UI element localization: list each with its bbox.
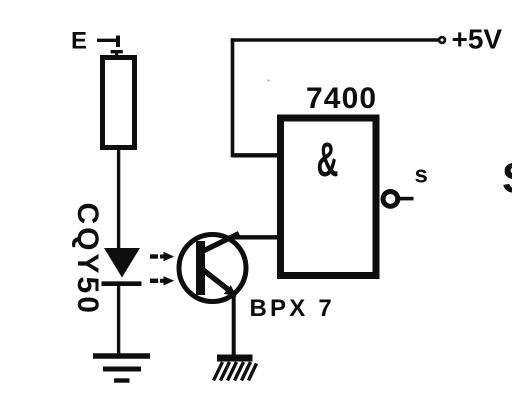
svg-text:7400: 7400 [306, 82, 377, 115]
light arrow upper head [160, 252, 174, 261]
wire resistor to LED [117, 150, 120, 250]
wire emitter to chassis ground [232, 295, 236, 358]
terminal +5V open circle [439, 37, 445, 43]
resistor R1 top terminal T-bar [111, 50, 123, 53]
stray speck [268, 80, 270, 82]
output inversion bubble [383, 192, 398, 207]
transistor Q1 collector stroke [202, 234, 239, 252]
wire E lead [97, 39, 118, 42]
transistor Q1 base bar [196, 241, 205, 295]
svg-text:E: E [71, 28, 87, 55]
transistor Q1 emitter arrowhead [224, 285, 237, 296]
resistor R1 [103, 58, 135, 148]
wire output s [399, 197, 414, 201]
light arrow lower head [160, 276, 174, 285]
wire +5V vertical drop [231, 38, 235, 157]
ground (earth) bar 2 [103, 367, 141, 372]
ground (earth) bar 1 [93, 353, 150, 359]
NAND gate U1 body [281, 118, 377, 276]
LED D1 cathode bar [102, 281, 142, 286]
wire into gate input A [233, 153, 281, 157]
chassis ground bar [217, 355, 253, 362]
wire +5V top rail [231, 38, 440, 41]
chassis ground hatch [214, 362, 257, 381]
light arrow lower dash [150, 279, 158, 283]
wire LED to ground [117, 283, 120, 356]
wire T-bar stem into resistor [115, 52, 118, 57]
transistor Q1 emitter stroke [202, 269, 230, 291]
svg-text:S: S [502, 155, 512, 203]
LED D1 anode triangle [104, 248, 140, 278]
svg-text:s: s [415, 162, 428, 189]
svg-text:&: & [317, 134, 339, 187]
wire collector to gate input B [229, 235, 280, 239]
light arrow upper dash [150, 254, 158, 258]
ground (earth) bar 3 [114, 378, 130, 382]
phototransistor Q1 body circle [179, 235, 246, 302]
svg-text:BPX 7: BPX 7 [250, 295, 335, 322]
svg-text:+5V: +5V [452, 23, 503, 54]
svg-text:CQY50: CQY50 [71, 203, 104, 316]
terminal tick at end of E lead [116, 36, 120, 48]
